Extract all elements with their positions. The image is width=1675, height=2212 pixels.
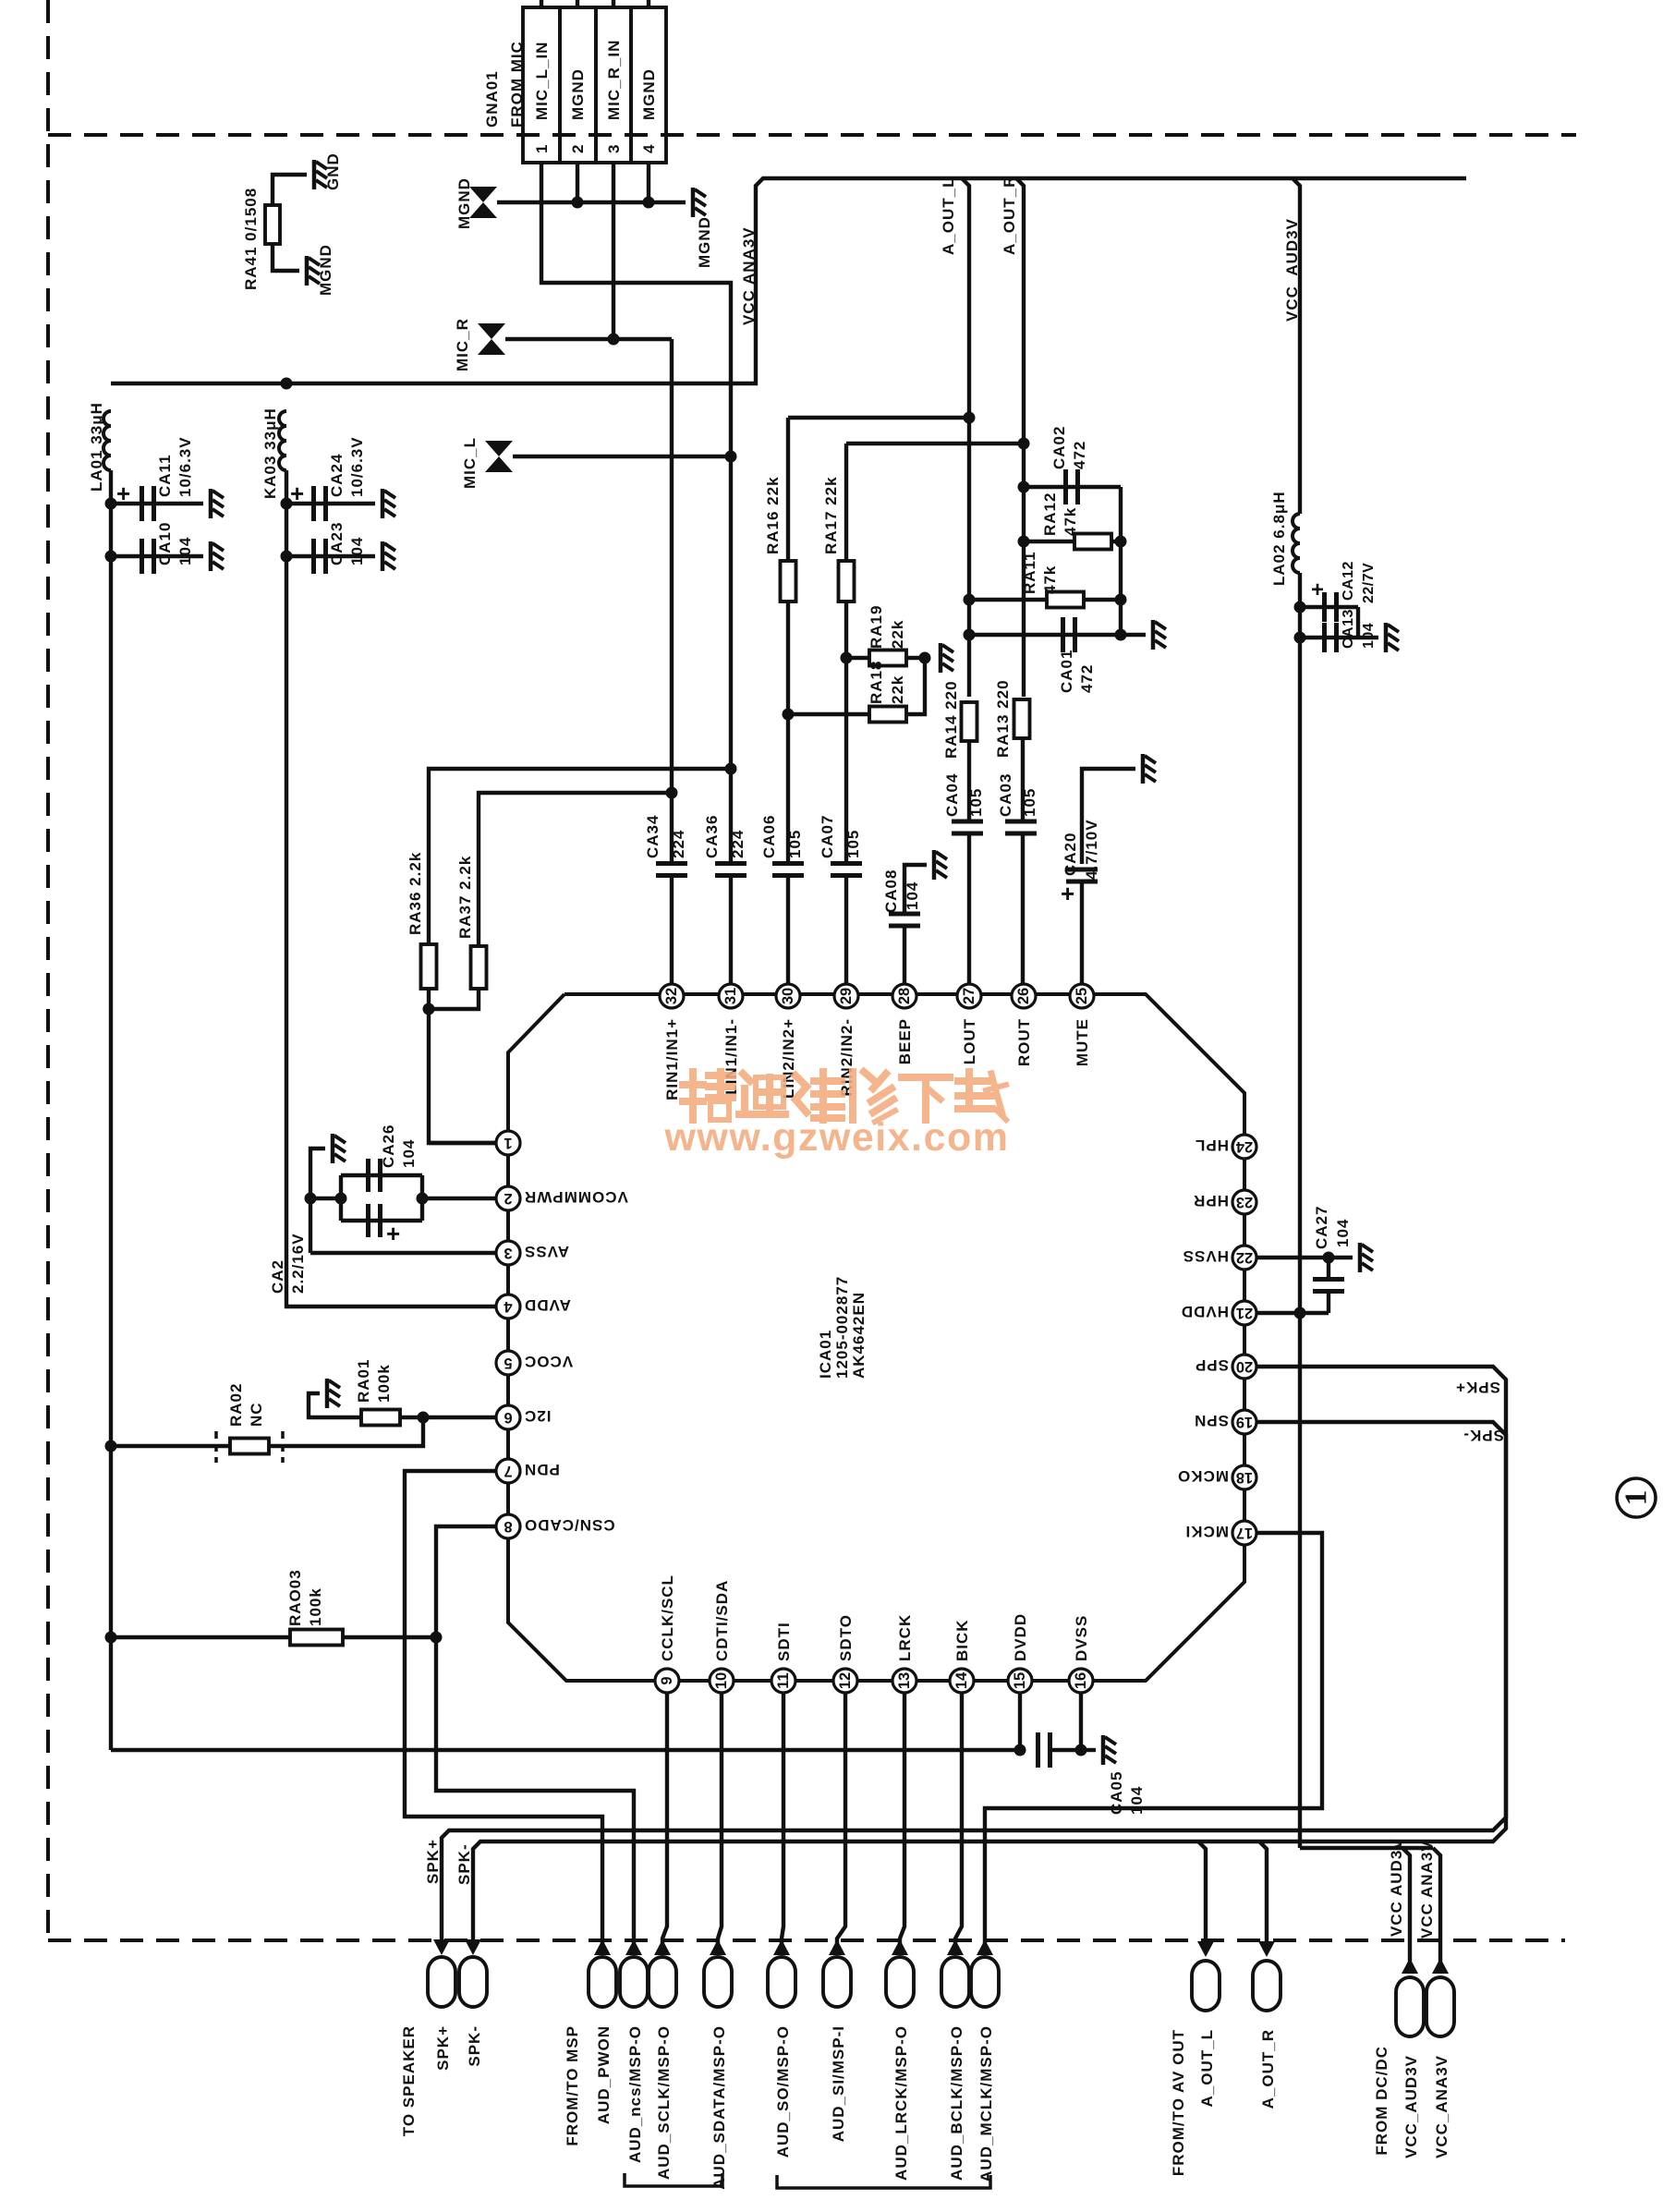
svg-text:MGND: MGND	[569, 68, 587, 120]
svg-text:13: 13	[896, 1672, 913, 1689]
svg-text:VCOMMPWR: VCOMMPWR	[524, 1188, 628, 1206]
svg-text:FROM DC/DC: FROM DC/DC	[1373, 2046, 1390, 2156]
svg-text:SPK-: SPK-	[455, 1843, 473, 1885]
pin 9 (CCLK/SCL)	[655, 1574, 679, 1693]
capacitor CA06	[772, 864, 804, 876]
svg-text:MIC_L_IN: MIC_L_IN	[533, 42, 551, 120]
svg-text:6: 6	[504, 1409, 512, 1426]
plus sign CA11	[116, 480, 130, 507]
svg-text:LA01 33μH: LA01 33μH	[88, 402, 105, 492]
svg-text:CA06: CA06	[760, 815, 778, 858]
terminal AUD_LRCK/MSP-O	[886, 1957, 914, 2007]
svg-text:A_OUT_L: A_OUT_L	[1198, 2029, 1216, 2107]
label KA03 33uH	[261, 407, 279, 499]
pin 27 (LOUT)	[957, 984, 981, 1064]
pin 22 (HVSS)	[1183, 1246, 1256, 1270]
board boundary dashed left edge	[46, 0, 50, 1939]
label RA18 22k	[868, 661, 906, 704]
wire A_OUT_L link (RA16 top)	[788, 416, 969, 419]
inductor LA01	[103, 411, 111, 470]
svg-text:1205-002877: 1205-002877	[833, 1276, 851, 1379]
svg-text:LRCK: LRCK	[896, 1614, 914, 1661]
junction CA23 row	[281, 551, 293, 563]
label GND	[324, 152, 342, 190]
ground (CA10)	[211, 541, 224, 571]
wire MGND row	[497, 201, 686, 204]
svg-text:CDTI/SDA: CDTI/SDA	[713, 1580, 731, 1661]
sheet number circled 1	[1617, 1478, 1656, 1517]
wire CA02 row	[1024, 485, 1121, 489]
wire CA03 to pin 26 ROUT	[1021, 833, 1025, 983]
terminal A_OUT_R	[1253, 1961, 1281, 2011]
svg-text:MIC_R_IN: MIC_R_IN	[605, 40, 623, 120]
wire pin17 MCKI route to AUD_MCLK	[985, 1533, 1322, 1944]
capacitor CA07	[831, 864, 862, 876]
arrow SPK- into terminal	[465, 1939, 481, 1955]
jack MIC_R	[478, 323, 505, 355]
svg-text:FROM/TO AV OUT: FROM/TO AV OUT	[1170, 2029, 1187, 2176]
junction A_OUT_L/RA16	[964, 412, 976, 424]
svg-text:A_OUT_R: A_OUT_R	[1259, 2029, 1277, 2109]
wire CA20 top to ground	[1082, 769, 1135, 864]
label CA20 4.7/10V	[1062, 819, 1100, 880]
svg-text:GND: GND	[324, 152, 342, 190]
svg-text:HVDD: HVDD	[1181, 1303, 1229, 1320]
wire CA01 to ground	[1121, 633, 1146, 637]
junction MIC_L / RA36 branch	[725, 763, 737, 775]
label FROM/TO MSP	[564, 2025, 581, 2146]
svg-text:SDTO: SDTO	[837, 1614, 855, 1661]
junction RA12 left	[1018, 536, 1030, 548]
resistor RA01	[361, 1410, 400, 1426]
arrow MSP terminal	[892, 1939, 908, 1955]
NC dash marks RA02	[216, 1431, 283, 1463]
resistor RA17	[839, 561, 855, 602]
label SPK- (near pin 19)	[1463, 1427, 1504, 1444]
label LA01 33uH	[88, 402, 105, 492]
wire CA06 to pin 30	[786, 876, 790, 983]
svg-text:SPK+: SPK+	[424, 1839, 442, 1884]
junction RA11 left	[964, 594, 976, 606]
wire RA18 right lead	[906, 658, 925, 714]
svg-text:7: 7	[504, 1463, 512, 1479]
resistor RA11	[1047, 592, 1084, 608]
svg-text:12: 12	[837, 1672, 854, 1689]
svg-text:11: 11	[775, 1672, 792, 1688]
wire CA2 block right rail	[420, 1175, 424, 1221]
svg-text:22k: 22k	[889, 620, 906, 649]
terminal AUD_MCLK/MSP-O	[971, 1957, 999, 2007]
label A_OUT_R	[1259, 2029, 1277, 2109]
svg-text:KA03 33μH: KA03 33μH	[261, 407, 279, 499]
svg-text:47k: 47k	[1041, 565, 1059, 594]
junction RA12 right	[1115, 536, 1127, 548]
svg-text:105: 105	[844, 830, 862, 858]
wire VCC_ANA3V rail (LA01/KA03 tops to top power line)	[111, 178, 1466, 383]
resistor RA18	[869, 707, 906, 723]
ground (CA05)	[1103, 1735, 1116, 1765]
svg-text:CA24: CA24	[328, 454, 346, 497]
svg-text:AUD_LRCK/MSP-O: AUD_LRCK/MSP-O	[892, 2025, 910, 2181]
svg-text:ICA01: ICA01	[817, 1330, 834, 1379]
label MIC_L jack	[461, 437, 479, 489]
label SPK+	[434, 2025, 452, 2071]
jack MIC_L	[485, 441, 513, 472]
wire MGND from GNA01 pin4	[647, 163, 650, 202]
wire VCC_AUD3V rail upper	[1293, 178, 1300, 514]
label SPK-	[466, 2025, 483, 2067]
ground (RA01)	[327, 1379, 340, 1408]
wire RA01 to pin6 I2C	[400, 1416, 496, 1419]
svg-text:100k: 100k	[375, 1364, 393, 1403]
svg-text:105: 105	[967, 788, 985, 817]
label SPK- (bottom)	[455, 1843, 473, 1885]
label RA12 47k	[1041, 492, 1079, 536]
svg-text:CA23: CA23	[328, 522, 346, 565]
wire RA11 row	[969, 598, 1121, 602]
wire pin1 lead	[429, 1141, 496, 1145]
svg-text:104: 104	[1334, 1219, 1352, 1247]
wire CA26 branch	[341, 1173, 422, 1177]
svg-text:4: 4	[504, 1298, 513, 1315]
svg-text:RA19: RA19	[868, 605, 885, 649]
svg-text:CA01: CA01	[1058, 650, 1075, 693]
junction RA11 right	[1115, 594, 1127, 606]
svg-text:RA01: RA01	[355, 1359, 372, 1403]
svg-text:BEEP: BEEP	[896, 1018, 914, 1064]
pin 8 (CSN/CADO)	[496, 1514, 615, 1538]
pin 10 (CDTI/SDA)	[710, 1580, 734, 1693]
svg-text:www.gzweix.com: www.gzweix.com	[663, 1115, 1009, 1160]
junction RA36/RA37	[423, 1003, 435, 1015]
pin 18 (MCKO)	[1177, 1465, 1256, 1489]
svg-text:RIN1/IN1+: RIN1/IN1+	[663, 1018, 681, 1100]
capacitor CA20 (electrolytic)	[1066, 869, 1098, 881]
label RA01 100k	[355, 1359, 393, 1403]
op-amp/codec IC ICA01 AK4642EN outline	[508, 994, 1244, 1681]
junction left rail RA02	[105, 1440, 117, 1452]
svg-text:30: 30	[780, 988, 796, 1004]
inductor KA03	[279, 411, 286, 470]
label MGND ground	[696, 216, 713, 268]
terminal SPK-	[459, 1957, 487, 2007]
capacitor CA36	[715, 864, 746, 876]
svg-text:28: 28	[896, 988, 913, 1004]
wire RA36 bottom to pin 1	[429, 989, 496, 1143]
ground GND (RA41 top)	[314, 160, 327, 189]
connector GNA01 reference label	[483, 41, 526, 128]
bracket MSP control group	[625, 2173, 722, 2186]
wire CA13 row	[1300, 636, 1358, 639]
ground (HVSS)	[1360, 1243, 1373, 1272]
wire CA2 branch	[341, 1219, 422, 1222]
wire MIC_R row	[505, 337, 672, 341]
junction RA19 branch	[841, 652, 853, 664]
resistor RA37	[471, 946, 487, 989]
svg-text:RA12: RA12	[1041, 492, 1059, 536]
svg-text:AUD_SI/MSP-I: AUD_SI/MSP-I	[830, 2025, 847, 2142]
pin 21 (HVDD)	[1181, 1301, 1256, 1325]
svg-text:VCC_ANA3V: VCC_ANA3V	[1433, 2055, 1450, 2158]
wire AUD_SI from pin 12	[837, 1693, 845, 1944]
ground (RA19)	[941, 643, 953, 673]
junction DVDD	[1014, 1744, 1026, 1756]
svg-text:1: 1	[504, 1135, 512, 1151]
svg-text:RA13 220: RA13 220	[994, 679, 1012, 758]
label CA24 10/6.3V	[328, 436, 366, 497]
wire RA36 top (line to MIC_L node)	[429, 769, 731, 944]
resistor RA41	[265, 205, 280, 244]
svg-text:SPP: SPP	[1195, 1356, 1229, 1374]
svg-text:VCC AUD3V: VCC AUD3V	[1388, 1838, 1405, 1937]
svg-text:CA34: CA34	[644, 815, 662, 858]
resistor RA13	[1014, 699, 1030, 738]
wire AUD_LRCK from pin 13	[900, 1693, 904, 1944]
wire CA08 top lead to ground	[904, 865, 927, 914]
svg-text:CA11: CA11	[156, 454, 174, 497]
pin 25 (MUTE)	[1070, 984, 1094, 1066]
label RA16 22k	[764, 476, 782, 554]
svg-text:2: 2	[569, 144, 587, 153]
junction CA27 top	[1323, 1252, 1335, 1264]
svg-text:CA20: CA20	[1062, 833, 1079, 876]
svg-text:AUD_MCLK/MSP-O: AUD_MCLK/MSP-O	[977, 2025, 995, 2182]
capacitor CA27	[1313, 1280, 1344, 1292]
arrow MSP terminal	[625, 1939, 642, 1955]
connector GNA01 pin 2 label MGND	[569, 68, 587, 120]
label VCC ANA3V (above terminal)	[1418, 1840, 1436, 1939]
wire CA36 to pin 31	[729, 876, 733, 983]
capacitor CA13	[1325, 623, 1337, 652]
label RAO03 100k	[286, 1569, 324, 1626]
label AUD_SI/MSP-I	[830, 2025, 847, 2142]
connector GNA01 pin 1 label MIC_L_IN	[533, 42, 551, 120]
label CA01 472	[1058, 650, 1096, 693]
svg-text:LOUT: LOUT	[961, 1018, 978, 1064]
terminal AUD_SO/MSP-O	[768, 1957, 795, 2007]
arrow MSP terminal	[829, 1939, 845, 1955]
svg-text:22k: 22k	[889, 675, 906, 704]
svg-text:+: +	[116, 480, 130, 507]
wire CA24 row	[286, 502, 375, 505]
wire pin22 HVSS to ground	[1256, 1256, 1353, 1259]
resistor RA14	[962, 702, 977, 741]
svg-text:MGND: MGND	[317, 244, 334, 296]
svg-text:RA17 22k: RA17 22k	[822, 476, 840, 554]
pin 26 (ROUT)	[1012, 984, 1036, 1066]
jack MGND (mic ground)	[469, 187, 497, 218]
label MGND (RA41)	[317, 244, 334, 296]
wire RA41 bottom lead	[273, 244, 299, 271]
wire RA14 to CA04	[967, 741, 971, 821]
wire CA13 to ground	[1358, 636, 1378, 639]
wire CA11 row	[111, 502, 203, 505]
wire CA08 to pin 28 BEEP	[903, 926, 906, 983]
svg-text:CA02: CA02	[1050, 426, 1068, 469]
label AUD_LRCK/MSP-O	[892, 2025, 910, 2181]
wire pin15 DVDD drop	[1018, 1693, 1022, 1750]
connector GNA01 pin 3 label MIC_R_IN	[605, 40, 623, 120]
label VCC_ANA3V	[1433, 2055, 1450, 2158]
wire CA2 block link	[310, 1197, 341, 1200]
resistor RA12	[1074, 534, 1111, 550]
svg-text:DVSS: DVSS	[1073, 1615, 1090, 1661]
capacitor CA05	[1038, 1732, 1050, 1768]
svg-text:AUD_PWON: AUD_PWON	[595, 2025, 613, 2124]
svg-text:CA12: CA12	[1341, 561, 1356, 601]
connector GNA01 pin 4 label MGND	[640, 68, 658, 120]
svg-text:1: 1	[533, 144, 551, 153]
junction RA19 right	[919, 652, 931, 664]
svg-text:CA03: CA03	[997, 773, 1014, 817]
svg-text:CA08: CA08	[882, 869, 900, 913]
resistor RA19	[869, 650, 906, 666]
wire RA41 top lead	[273, 175, 307, 205]
label CA23 104	[328, 522, 366, 565]
arrow A_OUT_L into terminal	[1197, 1941, 1214, 1957]
junction MGND-pin4	[643, 197, 655, 209]
arrow MSP terminal	[594, 1939, 611, 1955]
svg-text:104: 104	[1128, 1786, 1146, 1815]
wire pin7 PDN route to AUD_PWON	[405, 1471, 602, 1944]
svg-text:MIC_R: MIC_R	[454, 318, 471, 371]
svg-text:A_OUT_R: A_OUT_R	[1001, 176, 1018, 255]
wire CA27 top lead	[1327, 1258, 1330, 1280]
label RA19 22k	[868, 605, 906, 649]
pin 28 (BEEP)	[892, 984, 916, 1064]
arrow VCC_AUD3V	[1402, 1958, 1418, 1974]
arrow SPK+ into terminal	[433, 1939, 450, 1955]
svg-text:4.7/10V: 4.7/10V	[1083, 819, 1100, 880]
wire bottom row (left rail to DVDD)	[111, 1748, 1020, 1752]
svg-text:MUTE: MUTE	[1074, 1018, 1091, 1066]
svg-text:100k: 100k	[307, 1587, 324, 1626]
svg-text:18: 18	[1236, 1469, 1253, 1486]
svg-text:ROUT: ROUT	[1015, 1018, 1033, 1066]
wire RA12 row	[1024, 540, 1121, 543]
arrow A_OUT_R into terminal	[1258, 1941, 1275, 1957]
arrow MSP terminal	[773, 1939, 790, 1955]
ground MGND (right of connector)	[693, 188, 706, 217]
svg-text:RA14 220: RA14 220	[942, 680, 960, 759]
pin 17 (MCKI)	[1185, 1521, 1256, 1545]
junction DVSS	[1075, 1744, 1087, 1756]
svg-text:23: 23	[1236, 1194, 1253, 1210]
wire AUD_SO from pin 11	[782, 1693, 783, 1944]
svg-text:472: 472	[1071, 441, 1088, 469]
capacitor CA2 (electrolytic)	[369, 1204, 381, 1237]
svg-text:VCC_AUD3V: VCC_AUD3V	[1283, 218, 1301, 322]
svg-text:MCKO: MCKO	[1177, 1467, 1229, 1485]
junction CA01 right	[1115, 629, 1127, 641]
ground (CA01)	[1153, 620, 1166, 650]
svg-text:RA36 2.2k: RA36 2.2k	[407, 852, 424, 935]
wire SPP to SPK+ (pin20)	[442, 1367, 1506, 1944]
terminal VCC_ANA3V	[1426, 1977, 1454, 2036]
label CA34 224	[644, 815, 687, 858]
wire RA37 bottom join	[429, 989, 479, 1009]
wire pin2 lead	[422, 1197, 496, 1200]
label CA11 10/6.3V	[156, 436, 194, 497]
svg-text:22: 22	[1236, 1249, 1253, 1266]
svg-text:47k: 47k	[1062, 507, 1079, 536]
junction CA11 row	[105, 498, 117, 510]
label AUD_BCLK/MSP-O	[948, 2025, 965, 2181]
label A_OUT_R	[1001, 176, 1018, 255]
label CA05 104	[1108, 1771, 1146, 1815]
svg-text:32: 32	[663, 988, 680, 1004]
svg-text:VCC_AUD3V: VCC_AUD3V	[1402, 2055, 1420, 2158]
wire AUD_SDATA from pin 10	[718, 1693, 722, 1944]
label AUD_SO/MSP-O	[774, 2025, 792, 2157]
label CA06 105	[760, 815, 804, 858]
label CA27 104	[1313, 1206, 1352, 1249]
pin 29 (RIN2/IN2-)	[834, 984, 858, 1097]
capacitor CA24 (electrolytic)	[314, 486, 326, 521]
wire MIC_R vertical to CA34	[670, 339, 674, 789]
pin 4 (AVDD)	[496, 1294, 571, 1319]
connector GNA01 pin numbers	[533, 144, 658, 153]
svg-text:VCC ANA3V: VCC ANA3V	[1418, 1840, 1436, 1939]
svg-text:MGND: MGND	[455, 177, 473, 229]
svg-text:AK4642EN: AK4642EN	[850, 1292, 868, 1379]
capacitor CA26	[369, 1159, 381, 1192]
svg-text:MGND: MGND	[696, 216, 713, 268]
svg-text:MGND: MGND	[640, 68, 658, 120]
ground (CA13)	[1386, 623, 1399, 652]
pin 12 (SDTO)	[833, 1614, 857, 1693]
svg-text:1: 1	[1620, 1490, 1654, 1506]
plus sign CA20	[1061, 880, 1074, 907]
svg-text:31: 31	[722, 988, 739, 1004]
capacitor CA23	[314, 539, 326, 574]
svg-text:NC: NC	[248, 1402, 265, 1427]
wire CA12/CA13 join	[1356, 607, 1360, 638]
wire RA16 rail lower	[786, 602, 790, 864]
svg-text:BICK: BICK	[953, 1619, 971, 1661]
svg-text:472: 472	[1078, 664, 1096, 693]
wire VCC_AUD3V bottom route	[1300, 1846, 1433, 1850]
label A_OUT_L	[940, 177, 957, 255]
pin 23 (HPR)	[1193, 1190, 1256, 1214]
ground (CA2 block)	[333, 1134, 346, 1163]
label CA36 224	[703, 815, 746, 858]
svg-text:SPK+: SPK+	[434, 2025, 452, 2071]
svg-text:17: 17	[1236, 1525, 1253, 1541]
arrow MSP terminal	[947, 1939, 964, 1955]
wire CA2 block left rail	[339, 1175, 343, 1221]
pin 1 (NC)	[496, 1131, 520, 1155]
label VCC_AUD3V	[1402, 2055, 1420, 2158]
svg-text:CCLK/SCL: CCLK/SCL	[659, 1574, 676, 1661]
wire pin3 AVSS lead	[310, 1251, 496, 1255]
capacitor CA11 (electrolytic)	[142, 486, 154, 521]
wire VCC_AUD3V drop	[1402, 1848, 1410, 1974]
wire CA07 to pin 29	[844, 876, 848, 983]
label RA11 47k	[1021, 551, 1059, 594]
svg-text:21: 21	[1236, 1305, 1253, 1321]
label VCC ANA3V	[740, 226, 758, 325]
label CA10 104	[156, 522, 194, 565]
wire pin21 HVDD lead	[1256, 1311, 1329, 1315]
svg-text:2.2/16V: 2.2/16V	[289, 1233, 307, 1294]
svg-text:14: 14	[953, 1671, 970, 1689]
wire AUD_SCLK from pin 9	[662, 1693, 667, 1944]
resistor RA16	[781, 561, 796, 602]
wire A_OUT_R rail	[1016, 178, 1024, 697]
wire right rail (CA02 to CA01)	[1119, 487, 1123, 635]
svg-text:RA37 2.2k: RA37 2.2k	[456, 856, 474, 939]
